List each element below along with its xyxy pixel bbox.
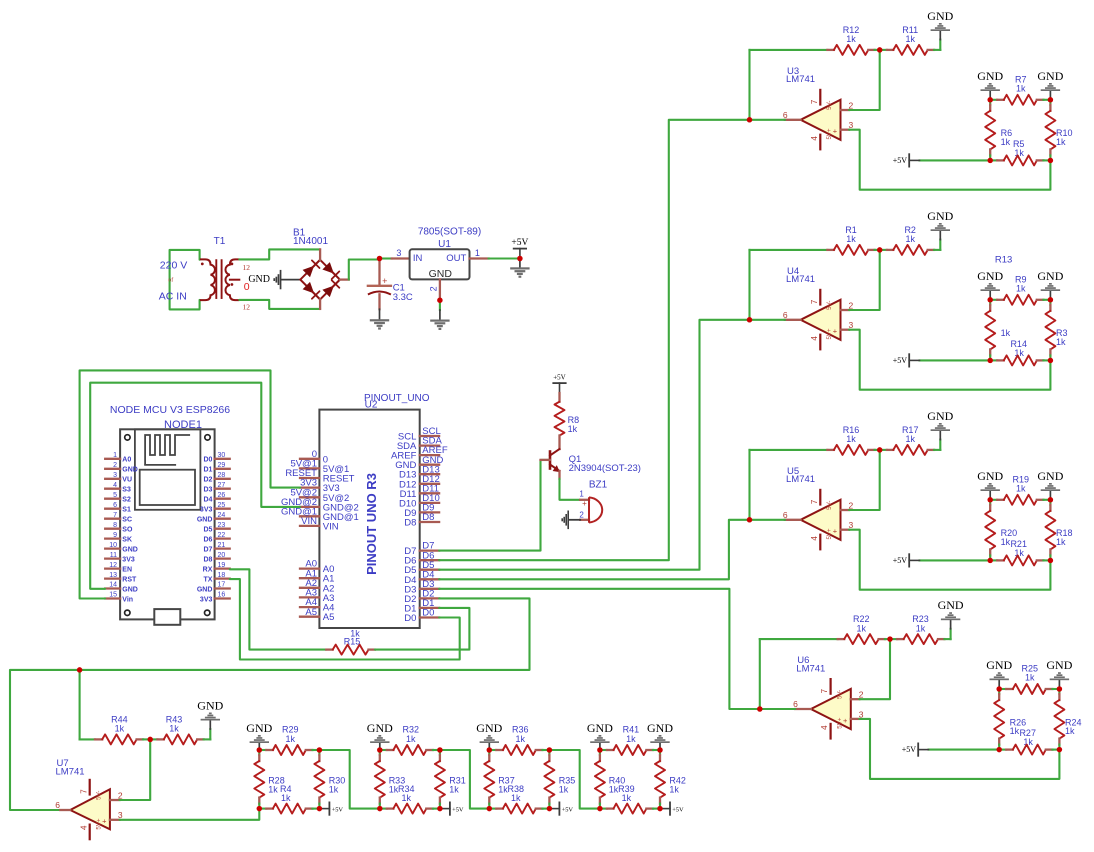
svg-text:7: 7 [113, 512, 117, 519]
svg-text:+5V: +5V [562, 806, 574, 813]
ground flag above R6 column [977, 69, 1003, 100]
svg-text:D4: D4 [203, 497, 212, 504]
resistor R21 1k (bottom) [990, 539, 1050, 566]
resistor R25 1k (top) [999, 664, 1059, 695]
svg-text:1k: 1k [1014, 148, 1024, 158]
ground flag right of R2 [927, 209, 953, 250]
svg-text:GND: GND [927, 409, 953, 423]
svg-text:9: 9 [113, 532, 117, 539]
svg-text:4: 4 [810, 136, 819, 141]
op-amp U6 LM741 [793, 655, 864, 739]
resistor R11 1k [880, 25, 941, 55]
transformer T1 [200, 236, 250, 312]
svg-text:D7: D7 [203, 546, 212, 553]
svg-text:2: 2 [113, 462, 117, 469]
junction divider node [1048, 158, 1054, 164]
svg-text:R13: R13 [995, 255, 1012, 266]
resistor R9 1k (top) [990, 274, 1050, 305]
svg-text:VIN: VIN [323, 521, 339, 532]
svg-text:D5: D5 [203, 527, 212, 534]
svg-text:1k: 1k [857, 623, 867, 633]
svg-text:1k: 1k [669, 785, 679, 795]
ground flag below U1 [430, 300, 449, 330]
svg-text:16: 16 [218, 592, 226, 599]
svg-text:3V3: 3V3 [200, 596, 213, 603]
pin 2 lead of U1 [439, 279, 441, 300]
ground flag right of R11 [927, 9, 953, 50]
wire U4 pin3 to divider [849, 330, 1050, 390]
resistor R24 1k (right) [1054, 689, 1081, 750]
wire NodeMCU RX to R15 [230, 569, 327, 649]
svg-text:+5V: +5V [452, 806, 464, 813]
svg-text:GND: GND [977, 469, 1003, 483]
wire D2 bus to R44 [80, 738, 95, 740]
svg-text:GND: GND [122, 467, 138, 474]
svg-text:BZ1: BZ1 [589, 480, 608, 491]
resistor R35 1k (right) [544, 750, 575, 809]
svg-text:4: 4 [820, 725, 829, 730]
wire U6 pin3 to divider [859, 719, 1059, 779]
svg-text:VU: VU [122, 477, 132, 484]
svg-text:1k: 1k [1001, 328, 1011, 338]
resistor R12 1k [750, 25, 880, 55]
ground flag below C1 [370, 309, 389, 329]
svg-text:2: 2 [849, 300, 854, 310]
junction ladder node [317, 806, 323, 812]
wire U2 D4 to U5 [439, 520, 749, 580]
resistor R19 1k (top) [990, 474, 1050, 505]
svg-text:6: 6 [55, 800, 60, 810]
AC source 220V AC IN net loop [159, 250, 200, 310]
svg-text:SO: SO [122, 527, 133, 534]
svg-text:7: 7 [820, 688, 829, 693]
svg-text:SC: SC [122, 517, 132, 524]
op-amp U7 LM741 [55, 758, 123, 839]
svg-text:+5V: +5V [893, 556, 908, 565]
svg-text:+: + [833, 527, 838, 536]
svg-text:1k: 1k [846, 34, 856, 44]
wire NodeMCU GND pin14 to U2 GND@2 [90, 383, 300, 589]
svg-text:1k: 1k [622, 793, 632, 803]
svg-text:VIN: VIN [301, 516, 317, 527]
svg-text:15: 15 [109, 592, 117, 599]
svg-text:23: 23 [218, 522, 226, 529]
svg-text:S1: S1 [122, 507, 131, 514]
svg-text:20: 20 [218, 552, 226, 559]
resistor R4 1k (bottom) [259, 784, 319, 813]
ground flag above R13 column [977, 269, 1003, 300]
svg-text:GND: GND [197, 517, 213, 524]
junction divider node [1048, 358, 1054, 364]
svg-text:24: 24 [218, 512, 226, 519]
svg-text:+: + [833, 127, 838, 136]
NodeMCU right pins 16-30 [197, 452, 230, 603]
wire U5 feedback vertical [748, 450, 750, 520]
junction divider node [1048, 297, 1054, 303]
svg-text:Vin: Vin [122, 596, 133, 603]
svg-text:12: 12 [243, 263, 251, 272]
svg-text:1k: 1k [905, 434, 915, 444]
resistor R15 1k [326, 629, 375, 655]
svg-text:2: 2 [579, 511, 584, 520]
junction ladder node [657, 806, 663, 812]
junction divider node [1057, 747, 1063, 753]
svg-text:+5V: +5V [332, 806, 344, 813]
wire ladder1 to ladder2 [319, 750, 379, 809]
svg-text:1k: 1k [916, 623, 926, 633]
svg-text:5: 5 [113, 492, 117, 499]
junction U3 pin6 node [747, 117, 753, 123]
resistor R34 1k (bottom) [380, 784, 440, 813]
junction divider node [987, 158, 993, 164]
NodeMCU NODE1 body [120, 429, 215, 625]
+5V flag at R34 node [440, 802, 464, 814]
ground flag below +5V output node [510, 259, 529, 278]
svg-text:GND: GND [476, 721, 502, 735]
svg-text:PINOUT UNO R3: PINOUT UNO R3 [364, 473, 379, 575]
svg-text:4: 4 [113, 482, 117, 489]
wire Q1 emitter to buzzer [560, 479, 581, 500]
svg-text:+: + [833, 327, 838, 336]
wire R15 to U2 D1 [375, 608, 470, 650]
svg-text:1k: 1k [905, 34, 915, 44]
resistor R26 1k (left) [994, 689, 1026, 750]
wire ladder2 to ladder3 [440, 750, 489, 809]
wire C1 node to U1 IN [380, 257, 410, 259]
junction divider node [987, 358, 993, 364]
svg-text:17: 17 [218, 582, 226, 589]
wire transformer secondary top to bridge [239, 249, 320, 259]
svg-text:1k: 1k [1065, 726, 1075, 736]
wire U2 D6 to U3 [439, 120, 749, 560]
ground flag above R10 column [1037, 69, 1063, 100]
svg-text:1k: 1k [402, 793, 412, 803]
svg-text:IN: IN [413, 253, 423, 264]
junction R1/R2 node [877, 247, 883, 253]
NodeMCU left pins 1-15 [105, 452, 138, 603]
svg-text:GND: GND [1037, 469, 1063, 483]
svg-text:30: 30 [218, 452, 226, 459]
resistor R42 1k (right) [655, 750, 686, 809]
junction divider node [1048, 97, 1054, 103]
ground flag right of R43 [197, 699, 223, 740]
resistor R5 1k (bottom) [990, 139, 1050, 166]
svg-text:1k: 1k [281, 793, 291, 803]
svg-text:2: 2 [859, 690, 864, 700]
junction ladder node [547, 806, 553, 812]
NodeMCU module NODE1 title [110, 404, 230, 431]
Arduino header U2 body [319, 410, 419, 628]
svg-text:10: 10 [109, 542, 117, 549]
resistor R33 1k (left) [375, 750, 405, 809]
junction ladder node [437, 747, 443, 753]
wire U5 pin3 to divider [849, 530, 1050, 590]
svg-text:5V-: 5V- [826, 301, 833, 310]
resistor R13 1k (left) [985, 300, 1010, 361]
svg-text:RX: RX [203, 566, 213, 573]
svg-text:GND: GND [197, 586, 213, 593]
svg-text:1k: 1k [1014, 348, 1024, 358]
junction divider node [987, 558, 993, 564]
junction divider node [1057, 686, 1063, 692]
svg-text:8: 8 [113, 522, 117, 529]
svg-text:7: 7 [810, 299, 819, 304]
+5V net flag at regulator output [511, 238, 528, 259]
svg-text:19: 19 [218, 562, 226, 569]
svg-text:S3: S3 [122, 487, 131, 494]
resistor R23 1k [890, 614, 951, 644]
junction R12/R11 node [877, 47, 883, 53]
svg-text:2: 2 [429, 286, 439, 291]
resistor R31 1k (right) [435, 750, 466, 809]
svg-text:1k: 1k [559, 785, 569, 795]
wire U3 pin6 to apex [750, 119, 785, 121]
svg-text:1: 1 [113, 452, 117, 459]
svg-text:A5: A5 [323, 612, 335, 623]
buzzer BZ1 [579, 480, 607, 523]
+5V flag feeding U5 divider [893, 554, 990, 566]
svg-text:1k: 1k [511, 793, 521, 803]
+5V flag feeding U6 divider [902, 743, 999, 755]
svg-text:4: 4 [810, 336, 819, 341]
resistor R1 1k [750, 225, 880, 255]
svg-text:3: 3 [113, 472, 117, 479]
+5V flag at R39 node [660, 802, 684, 814]
junction ladder node [437, 806, 443, 812]
svg-text:29: 29 [218, 462, 226, 469]
junction divider node [996, 686, 1002, 692]
junction R22/R23 node [887, 636, 893, 642]
+5V flag feeding U3 divider [893, 154, 990, 166]
junction ladder node [487, 806, 493, 812]
svg-text:1k: 1k [1010, 726, 1020, 736]
svg-text:T1: T1 [214, 236, 226, 247]
svg-text:1k: 1k [626, 734, 636, 744]
svg-text:LM741: LM741 [786, 474, 815, 485]
wire ladder3 to ladder4 [549, 750, 600, 809]
junction ladder node [377, 747, 383, 753]
svg-text:26: 26 [218, 492, 226, 499]
svg-text:5V-: 5V- [837, 690, 844, 699]
svg-text:6: 6 [783, 110, 788, 120]
svg-text:TX: TX [203, 576, 212, 583]
svg-text:1k: 1k [268, 784, 278, 794]
resistor R6 1k (left) [985, 100, 1012, 161]
resistor R22 1k [760, 614, 890, 644]
ground flag right of R17 [927, 409, 953, 450]
svg-text:1k: 1k [1056, 537, 1066, 547]
svg-text:EN: EN [122, 566, 132, 573]
resistor R43 1k [150, 715, 210, 745]
svg-text:21: 21 [218, 542, 226, 549]
svg-text:D8: D8 [422, 512, 434, 523]
ground flag above R24 column [1046, 658, 1072, 689]
junction at C1 top node [377, 256, 383, 262]
junction divider node [987, 497, 993, 503]
svg-text:2N3904(SOT-23): 2N3904(SOT-23) [569, 463, 641, 474]
svg-text:D8: D8 [203, 556, 212, 563]
svg-text:GND: GND [248, 274, 270, 285]
+5V flag feeding U4 divider [893, 354, 990, 366]
svg-text:GND: GND [977, 69, 1003, 83]
ground flag above R33 column [367, 721, 393, 750]
svg-text:+: + [843, 716, 848, 725]
wire U6 pin2 to feedback [859, 639, 890, 699]
svg-text:3: 3 [849, 520, 854, 530]
resistor R18 1k (right) [1045, 500, 1072, 561]
+5V flag at R38 node [549, 802, 573, 814]
resistor R16 1k [750, 425, 880, 455]
svg-text:1k: 1k [1001, 137, 1011, 147]
svg-text:U1: U1 [438, 239, 451, 250]
svg-text:3.3C: 3.3C [393, 292, 413, 303]
svg-text:1k: 1k [329, 785, 339, 795]
svg-text:GND: GND [927, 209, 953, 223]
svg-text:LM741: LM741 [786, 74, 815, 85]
+5V flag above R8 [553, 374, 566, 394]
svg-text:D6: D6 [203, 536, 212, 543]
svg-text:D0: D0 [404, 613, 416, 624]
wire U2 D3 to U6 [439, 589, 760, 709]
wire U2 D7 to Q1 base [439, 460, 549, 551]
svg-text:5V-: 5V- [826, 101, 833, 110]
junction ladder node [597, 747, 603, 753]
wire U4 pin6 to apex [750, 319, 785, 321]
svg-text:3V3: 3V3 [200, 507, 213, 514]
junction at +5V output node [517, 256, 523, 262]
svg-text:12: 12 [109, 562, 117, 569]
ground flag above R37 column [476, 721, 502, 750]
resistor R14 1k (bottom) [990, 339, 1050, 366]
junction ladder node [597, 806, 603, 812]
svg-text:220 V: 220 V [160, 259, 187, 271]
svg-text:1k: 1k [449, 785, 459, 795]
svg-text:7: 7 [79, 789, 88, 794]
svg-text:5V-: 5V- [826, 501, 833, 510]
svg-text:22: 22 [218, 532, 226, 539]
svg-text:D0: D0 [422, 608, 434, 619]
svg-text:RST: RST [122, 576, 137, 583]
ground flag at buzzer pin 2 [561, 511, 580, 530]
ground flag above R18 column [1037, 469, 1063, 500]
junction divider node [1048, 558, 1054, 564]
resistor R40 1k (left) [595, 750, 625, 809]
ground flag at bridge negative terminal [248, 270, 300, 289]
resistor R39 1k (bottom) [600, 784, 660, 813]
svg-text:12: 12 [243, 303, 251, 312]
junction divider node [987, 297, 993, 303]
junction at U1 pin2 [437, 297, 443, 303]
svg-text:+5V: +5V [902, 745, 917, 754]
op-amp U3 LM741 [783, 66, 854, 150]
svg-text:+5V: +5V [553, 374, 566, 382]
svg-text:NODE MCU V3 ESP8266: NODE MCU V3 ESP8266 [110, 404, 230, 416]
svg-text:27: 27 [218, 482, 226, 489]
svg-text:LM741: LM741 [786, 274, 815, 285]
svg-text:A0: A0 [122, 457, 131, 464]
svg-text:1: 1 [579, 489, 584, 498]
svg-text:GND: GND [1037, 69, 1063, 83]
svg-text:13: 13 [109, 572, 117, 579]
svg-text:1k: 1k [286, 734, 296, 744]
svg-text:+5V: +5V [672, 806, 684, 813]
wire U7 pin2 to R44/R43 junction [120, 739, 151, 800]
op-amp U4 LM741 [783, 266, 854, 350]
svg-text:4: 4 [79, 825, 88, 830]
Arduino header U2 PINOUT_UNO title [364, 393, 430, 410]
wire U2 D2 to bottom bus [10, 598, 530, 810]
junction ladder node [257, 806, 263, 812]
junction ladder node [487, 747, 493, 753]
junction ladder node [377, 806, 383, 812]
junction ladder node [657, 747, 663, 753]
svg-text:1k: 1k [516, 734, 526, 744]
wire U3 feedback vertical [748, 50, 750, 120]
ground flag above R26 column [986, 658, 1012, 689]
wire U1 OUT to +5V node [470, 257, 520, 259]
svg-text:1k: 1k [1056, 337, 1066, 347]
svg-text:OUT: OUT [446, 253, 466, 264]
svg-text:1k: 1k [1014, 548, 1024, 558]
svg-text:1k: 1k [406, 734, 416, 744]
svg-text:GND: GND [1046, 658, 1072, 672]
transistor Q1 2N3904(SOT-23) [541, 449, 641, 479]
resistor R17 1k [880, 425, 941, 455]
+5V flag at R4 node [319, 802, 343, 814]
resistor R32 1k (top) [380, 725, 440, 755]
label R13 [995, 255, 1012, 266]
svg-text:GND: GND [246, 721, 272, 735]
svg-text:+5V: +5V [511, 238, 528, 248]
wire U4 pin2 to feedback [849, 250, 880, 310]
svg-text:+: + [582, 499, 587, 508]
svg-text:1k: 1k [1016, 484, 1026, 494]
svg-text:LM741: LM741 [796, 663, 825, 674]
wire U5 pin6 to apex [750, 519, 785, 521]
wire U6 feedback vertical [759, 639, 761, 709]
svg-text:GND: GND [587, 721, 613, 735]
junction ladder node [317, 747, 323, 753]
svg-text:1N4001: 1N4001 [293, 236, 328, 247]
svg-text:SK: SK [122, 536, 132, 543]
svg-text:S2: S2 [122, 497, 131, 504]
svg-text:GND: GND [977, 269, 1003, 283]
resistor R37 1k (left) [484, 750, 514, 809]
junction divider node [996, 747, 1002, 753]
svg-text:7: 7 [810, 99, 819, 104]
resistor R30 1k (right) [314, 750, 345, 809]
svg-text:D1: D1 [203, 467, 212, 474]
ground flag above R40 column [587, 721, 613, 750]
svg-text:1k: 1k [568, 424, 578, 434]
svg-text:D2: D2 [203, 477, 212, 484]
junction U5 pin6 node [747, 517, 753, 523]
U2 left pins [281, 449, 359, 623]
svg-text:2: 2 [849, 100, 854, 110]
wire bus to R44 [79, 670, 81, 740]
resistor R8 1k [555, 393, 580, 449]
svg-text:GND: GND [197, 699, 223, 713]
svg-text:1k: 1k [1016, 284, 1026, 294]
resistor R10 1k (right) [1045, 100, 1072, 161]
svg-text:1k: 1k [1023, 737, 1033, 747]
svg-text:D0: D0 [203, 457, 212, 464]
bridge rectifier B1 1N4001 [293, 228, 349, 309]
wire transformer secondary bottom to bridge [239, 300, 320, 309]
svg-text:4: 4 [810, 536, 819, 541]
ground flag above R3 column [1037, 269, 1063, 300]
svg-text:2: 2 [118, 790, 123, 800]
